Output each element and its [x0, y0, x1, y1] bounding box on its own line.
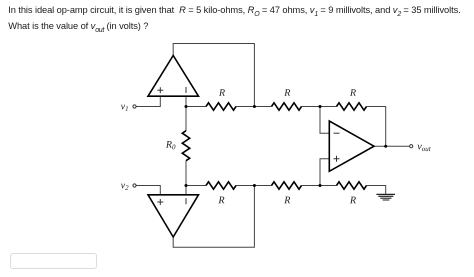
label R0 [166, 141, 176, 149]
wire: node E up to U3 + input [320, 159, 329, 186]
op-amp U2 plus mark [157, 199, 163, 205]
wire: R3 to corner then down to output node [367, 107, 386, 147]
wire: R1 to node B [236, 106, 272, 108]
wire: v1 lead to U1 + input [136, 96, 160, 106]
op-amp U1 (top left, pointing up) [148, 56, 199, 97]
wire: R5 to node E [302, 185, 337, 187]
op-amp U3 plus mark [334, 156, 340, 162]
label v1 [121, 105, 128, 111]
wire: R0 bottom lead [185, 161, 187, 186]
wire: U2 - input stub up to node D [185, 186, 187, 195]
wire: U3 output to terminal [374, 145, 410, 147]
op-amp U1 plus mark [157, 87, 163, 93]
resistor R1 [206, 103, 236, 110]
wire: v2 lead to U2 + input [136, 186, 160, 195]
node E junction dot [319, 184, 322, 187]
node A junction dot [185, 105, 188, 108]
resistor R2 [272, 103, 302, 110]
op-amp U3 (right, pointing right) [329, 121, 374, 171]
label vout [417, 145, 430, 151]
op-amp U2 (bottom left, pointing down) [148, 195, 199, 237]
wire: top row node A to R1 [186, 106, 206, 108]
resistor R4 [206, 182, 236, 189]
resistor R5 [272, 182, 302, 189]
output node junction dot [384, 145, 387, 148]
wire: node D to R4 [186, 185, 206, 187]
resistor R3 [337, 103, 367, 110]
node C junction dot [319, 105, 322, 108]
wire: U2 output feedback (apex down, right, up to node F) [173, 186, 254, 248]
label v2 [121, 184, 129, 190]
terminal vout [410, 145, 413, 148]
wire: R6 to ground stub [367, 186, 386, 195]
wire: R0 top lead [185, 107, 187, 131]
label R (R2 value) [284, 89, 290, 96]
label R (R5 value) [284, 197, 290, 204]
terminal v1 [133, 105, 136, 108]
label R (R4 value) [218, 197, 224, 204]
wire: U1 - input stub down to node A [185, 96, 187, 106]
op-amp U1 minus mark (rotated) [185, 87, 187, 93]
ground [376, 194, 395, 200]
wire: R4 to node F [236, 185, 272, 187]
terminal v2 [133, 184, 136, 187]
node B junction dot [253, 105, 256, 108]
wire: U1 output feedback (apex up, right, down to node B) [173, 44, 254, 107]
label R (R3 value) [350, 89, 356, 96]
label R (R1 value) [219, 89, 225, 96]
wire: node C down to U3 - input [320, 107, 329, 134]
resistor R0 (vertical) [182, 131, 189, 161]
op-amp U2 minus mark (rotated) [185, 198, 187, 204]
wire: R2 to node C [302, 106, 337, 108]
node D junction dot [185, 184, 188, 187]
op-amp U3 minus mark [334, 132, 340, 134]
answer input box [10, 253, 97, 269]
resistor R6 [337, 182, 367, 189]
label R (R6 value) [350, 197, 356, 204]
node F junction dot [253, 184, 256, 187]
